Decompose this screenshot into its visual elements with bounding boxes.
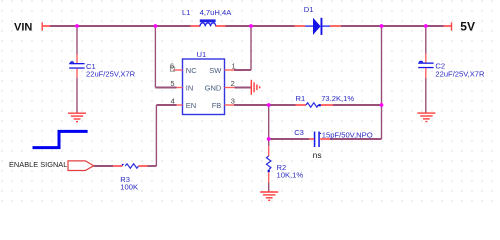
pin 6 NC stub [171, 67, 183, 71]
junction top rail at output drop [380, 24, 384, 28]
svg-text:D1: D1 [304, 5, 314, 14]
pin C2.2 [425, 68, 427, 78]
ground GND4 [417, 113, 435, 121]
ground GND3 [260, 192, 278, 200]
svg-text:15pF/50V,NPO: 15pF/50V,NPO [322, 130, 373, 139]
waveform enable step symbol [33, 131, 88, 147]
wire top rail VIN to L1 [50, 25, 191, 27]
pin 1 SW stub [225, 69, 235, 71]
op-amp U1 body [183, 59, 225, 115]
svg-text:NC: NC [186, 66, 197, 75]
pin 2 GND stub [225, 87, 235, 89]
svg-text:5: 5 [170, 79, 174, 88]
wire GND pin stub [235, 87, 251, 89]
wire C3 row left [269, 138, 310, 140]
resistor R2 [267, 156, 271, 172]
svg-text:R1: R1 [296, 94, 306, 103]
inductor L1 [200, 19, 216, 26]
pin R2.1 [268, 146, 270, 156]
wire EN branch from pin 4 [148, 105, 177, 166]
svg-text:IN: IN [186, 83, 194, 92]
svg-text:10K,1%: 10K,1% [277, 171, 304, 180]
resistor R1 [306, 103, 321, 107]
pin C3.2 [320, 138, 330, 140]
pin C3.1 [309, 138, 314, 140]
wire 5V rail [341, 25, 444, 27]
wire FB row left [234, 104, 296, 106]
junction FB row at R2 [267, 103, 271, 107]
pin C1.2 [76, 69, 78, 78]
capacitor C3 [314, 132, 322, 148]
pin R1.2 [321, 104, 333, 106]
junction FB row at output drop [380, 103, 384, 107]
svg-text:ENABLE SIGNAL: ENABLE SIGNAL [9, 160, 67, 169]
junction top rail at C2 [424, 24, 428, 28]
pin R3.1 [113, 165, 122, 167]
wire FB row right [333, 104, 382, 106]
svg-text:C3: C3 [294, 128, 304, 137]
pin R1.1 [296, 104, 307, 106]
diode D1 [305, 18, 330, 35]
pin 5 IN stub [177, 87, 183, 89]
wire C3 junction to R2 [268, 139, 270, 146]
port 5V terminal tick [444, 22, 452, 30]
svg-text:2: 2 [231, 79, 235, 88]
svg-text:FB: FB [212, 101, 222, 110]
wire C2 branch upper [425, 26, 427, 54]
ground GND2 rotated [251, 80, 259, 95]
resistor R3 [122, 164, 139, 168]
wire SW node rail [226, 25, 295, 27]
wire R2 to ground [268, 183, 270, 192]
pin D1 cathode [330, 25, 341, 27]
junction top rail at SW [249, 24, 253, 28]
junction top rail at C1 [75, 24, 79, 28]
pin C2.1 [425, 54, 427, 63]
pin C1.1 [76, 55, 78, 64]
svg-text:ns: ns [313, 150, 322, 160]
svg-text:SW: SW [209, 66, 222, 75]
svg-text:22uF/25V,X7R: 22uF/25V,X7R [86, 70, 136, 79]
svg-text:4,7uH,4A: 4,7uH,4A [200, 8, 233, 17]
port VIN terminal tick [42, 22, 50, 30]
pin D1 anode [295, 25, 306, 27]
svg-text:L1: L1 [182, 8, 190, 17]
pin R2.2 [268, 172, 270, 182]
pin L1.2 [216, 25, 226, 27]
svg-text:100K: 100K [120, 183, 138, 192]
pin 3 FB stub [225, 104, 235, 106]
capacitor C2 [418, 61, 433, 68]
pin L1.1 [191, 25, 201, 27]
svg-text:EN: EN [186, 101, 196, 110]
wire SW pin to rail [234, 26, 251, 70]
junction C3 row at R2 [267, 137, 271, 141]
pin 4 EN stub [177, 104, 183, 106]
wire C1 to ground [76, 78, 78, 113]
pin R3.2 [139, 165, 148, 167]
svg-text:VIN: VIN [14, 21, 32, 33]
wire C2 to ground [425, 78, 427, 113]
wire IN branch horizontal [155, 87, 176, 89]
svg-text:6: 6 [170, 62, 174, 71]
svg-text:22uF/25V,X7R: 22uF/25V,X7R [435, 69, 485, 78]
wire output drop vertical [381, 26, 383, 139]
wire C3 row right [330, 138, 382, 140]
wire IN branch vertical [154, 26, 156, 88]
port ENABLE SIGNAL [68, 161, 94, 171]
ground GND1 [68, 113, 86, 121]
svg-text:GND: GND [205, 83, 222, 92]
junction top rail at IN [154, 24, 158, 28]
wire C1 branch upper [76, 26, 78, 55]
svg-text:5V: 5V [460, 19, 475, 33]
svg-text:73.2K,1%: 73.2K,1% [321, 94, 354, 103]
svg-text:U1: U1 [197, 50, 207, 59]
capacitor C1 [69, 61, 84, 68]
wire port to R3 [94, 165, 113, 167]
wire FB junction to C3 junction [268, 105, 270, 139]
